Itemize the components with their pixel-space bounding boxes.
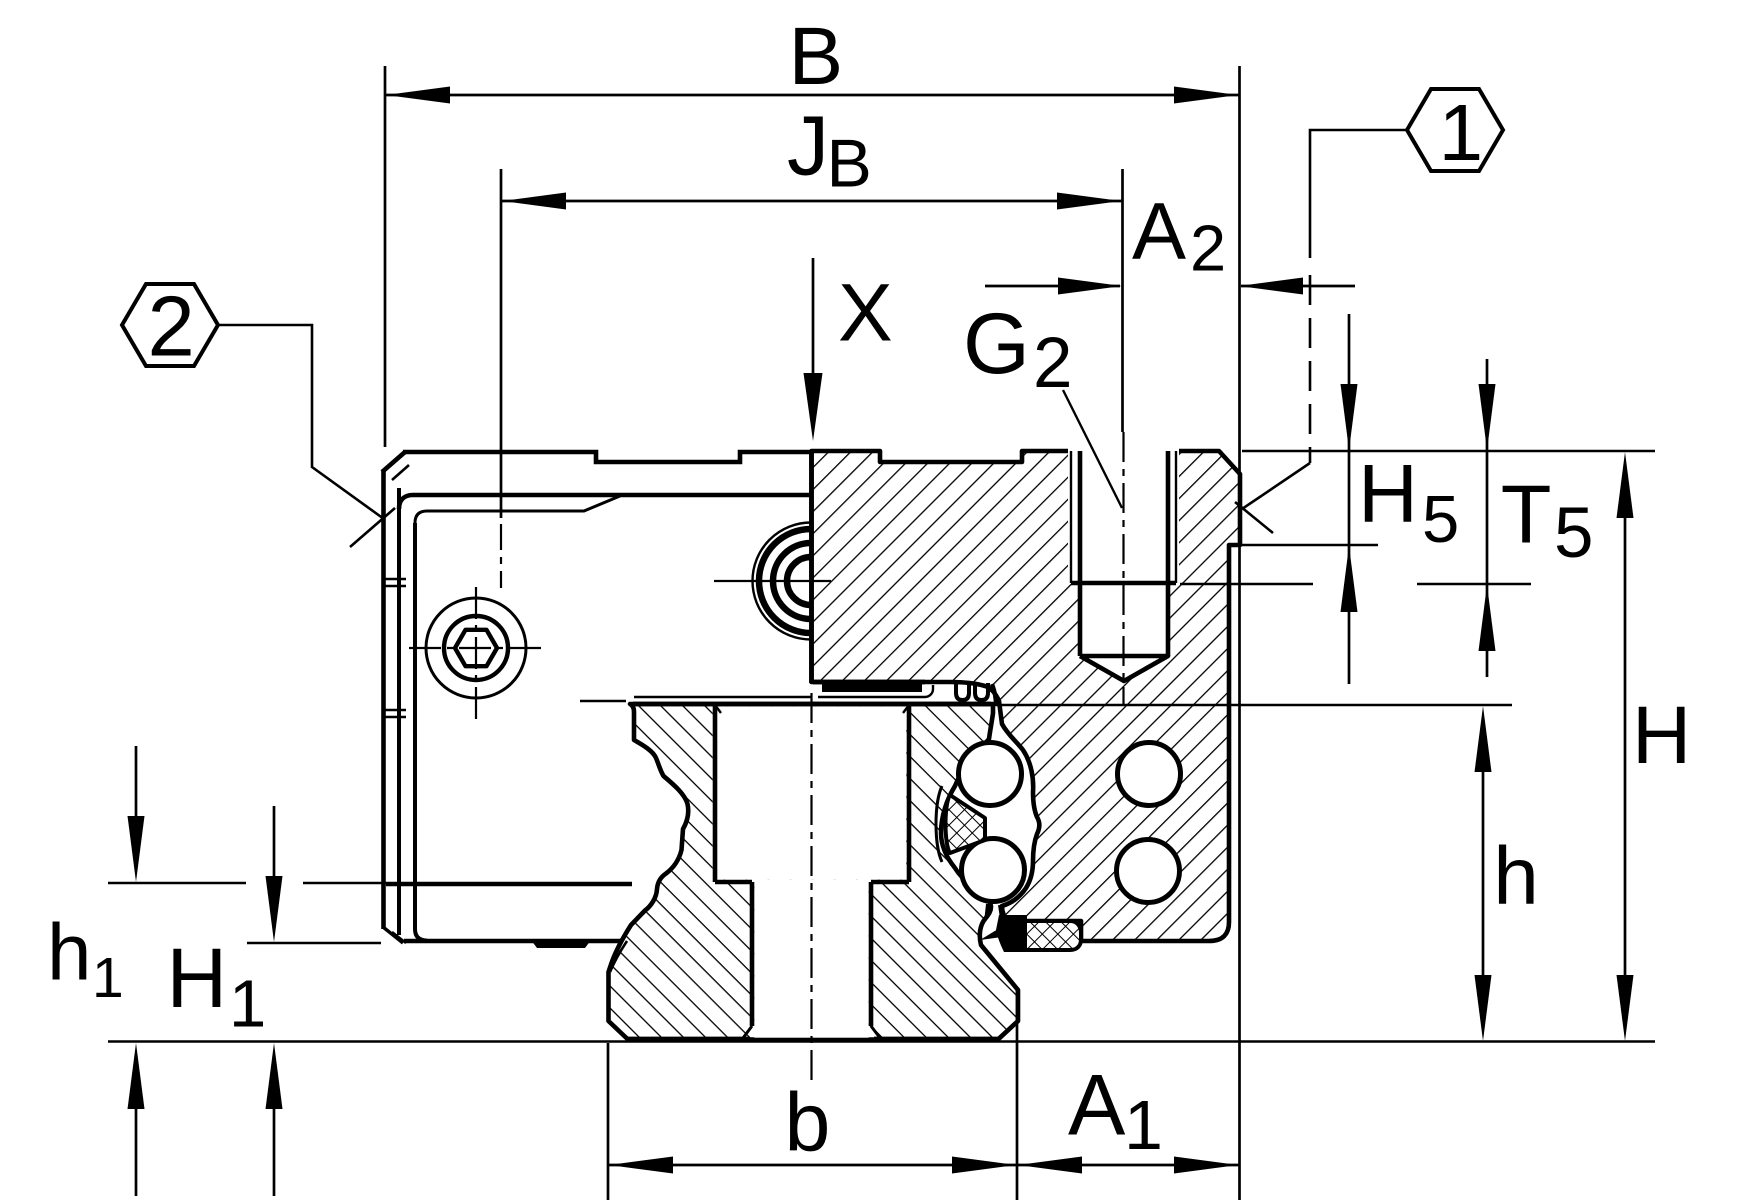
H1 reference line (247, 942, 381, 944)
inner vertical 2 (397, 488, 401, 935)
H dimension (1624, 517, 1627, 976)
ball outer lower (1117, 840, 1180, 903)
h1 reference line (108, 882, 632, 884)
svg-text:5: 5 (1554, 494, 1594, 573)
G2 hole thread lines thin (1071, 451, 1176, 583)
G2 core bottom + cone (1080, 656, 1168, 681)
rail bottom edge thick segments (627, 1037, 999, 1042)
top face extension right (1242, 450, 1655, 452)
baseline (108, 1040, 1655, 1042)
H5 upper arrow (1348, 314, 1351, 684)
outer left edge (381, 471, 386, 929)
B extension left (384, 66, 387, 447)
JB extension right / G2 centerline upper (1121, 169, 1124, 432)
B/A1 extension right (1238, 66, 1241, 1200)
svg-text:B: B (827, 126, 872, 202)
svg-text:H: H (1632, 690, 1691, 781)
hexagon callout 2 (122, 284, 395, 547)
cap bottom edge thick (404, 939, 622, 944)
JB extension left (500, 169, 503, 518)
counterbore bottom shoulder (715, 880, 909, 885)
lube port half view at section line (753, 523, 811, 640)
ball inner upper (959, 743, 1022, 806)
JB dimension line (501, 200, 1122, 203)
socket head cap screw left (426, 598, 526, 698)
white punch around outer balls (1117, 742, 1181, 806)
A2 dimension (outside arrows) (985, 285, 1355, 288)
svg-text:1: 1 (1124, 1086, 1163, 1164)
svg-text:5: 5 (1422, 482, 1459, 557)
svg-text:G: G (963, 296, 1030, 392)
bottom inner line thin (h1 level) (386, 884, 632, 886)
top left chamfer (382, 452, 405, 472)
clip on bottom (531, 940, 591, 948)
svg-text:2: 2 (1190, 212, 1226, 285)
rail top extension right for h (913, 704, 1512, 706)
b extension lines (607, 1043, 610, 1200)
B dimension line (385, 94, 1239, 97)
h dimension (1482, 771, 1485, 976)
H5 reference line (1231, 544, 1378, 546)
inner vertical 3 (415, 523, 427, 941)
section boundary thick (809, 451, 814, 683)
svg-text:H: H (167, 931, 228, 1025)
bolt hole bottom chamfers (743, 1026, 880, 1038)
svg-text:2: 2 (1033, 324, 1073, 403)
seal lip along rail flange below cap (610, 941, 627, 972)
seal gap line above rail on end view (634, 696, 811, 698)
cap top line thick with left corner (399, 495, 811, 509)
cage piece between inner balls, cross hatched (946, 795, 986, 853)
H1 arrows (273, 806, 276, 877)
T5 upper arrow (1486, 359, 1489, 677)
ball inner lower (962, 839, 1025, 902)
b dimension line (608, 1164, 1017, 1167)
G2 hole core walls thick (1080, 451, 1168, 656)
X arrow (812, 258, 815, 385)
bottom left chamfer (383, 927, 403, 943)
svg-text:J: J (787, 99, 829, 193)
A1 dimension line (1017, 1164, 1239, 1167)
seal lip bottom left dark bits (987, 904, 1003, 918)
carriage body hatched (812, 451, 1241, 941)
ball outer upper (1118, 743, 1181, 806)
svg-text:B: B (789, 11, 844, 102)
svg-text:h: h (47, 907, 92, 996)
G2 threaded hole white (1068, 448, 1179, 581)
svg-text:X: X (838, 268, 893, 359)
counterbore mouth chamfers (715, 705, 909, 713)
seal lip left of rail top (580, 700, 626, 702)
G2 thread bottom (1071, 581, 1176, 586)
top seal strip under carriage (813, 680, 925, 685)
svg-text:H: H (1358, 447, 1418, 540)
svg-text:1: 1 (229, 967, 266, 1042)
counterbore walls (715, 704, 909, 882)
G2 leader (1063, 390, 1122, 508)
svg-text:A: A (1068, 1058, 1126, 1154)
T5 reference line (1180, 583, 1531, 585)
rail body hatched (609, 704, 1019, 1040)
G2 hole centerline (1122, 432, 1124, 705)
svg-text:h: h (1493, 831, 1539, 922)
white: bolt hole (754, 880, 868, 1038)
svg-text:A: A (1132, 187, 1186, 277)
inner chamfer top (392, 465, 409, 480)
bottom right seal strip cross hatched (1012, 921, 1081, 950)
svg-text:T: T (1501, 468, 1552, 561)
rail centerline (810, 693, 812, 1082)
white: counterbore (713, 706, 907, 879)
h1 arrows (135, 746, 138, 817)
bolt hole walls (752, 882, 871, 1026)
tick pairs (382, 579, 406, 717)
svg-text:2: 2 (148, 280, 195, 375)
top edge with notch (403, 452, 812, 462)
svg-text:1: 1 (92, 946, 124, 1010)
svg-text:1: 1 (1439, 88, 1484, 177)
svg-text:b: b (785, 1076, 831, 1168)
hexagon callout 1 (1235, 89, 1503, 533)
rail top edge thick (633, 702, 991, 707)
seal jog line (415, 496, 620, 523)
